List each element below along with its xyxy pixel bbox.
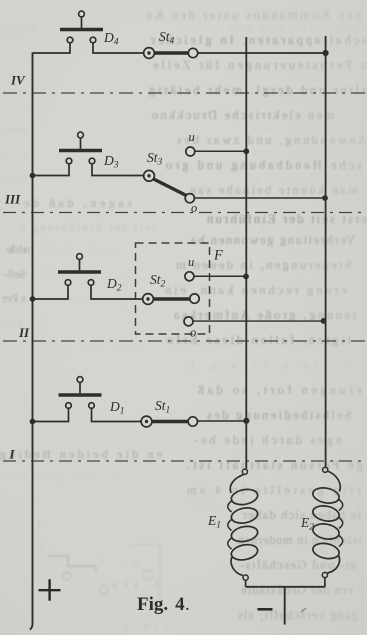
svg-text:u: u bbox=[188, 255, 194, 269]
junction on left bus at row 3 bbox=[30, 173, 36, 179]
wire: u contact of St2 to middle bus bbox=[194, 275, 247, 277]
level line IV bbox=[3, 92, 366, 94]
junction on right bus row 4 bbox=[323, 50, 329, 56]
push-button D3 bbox=[59, 132, 102, 164]
contact u of St2 bbox=[185, 272, 194, 281]
contact o of St3 bbox=[185, 194, 194, 203]
svg-text:Fig.4.: Fig.4. bbox=[137, 594, 189, 615]
dashed box F around St2 bbox=[136, 243, 210, 334]
wire: D4 right contact to St4 pivot bbox=[93, 43, 144, 53]
junction on middle bus row 3 bbox=[243, 148, 249, 154]
switch contact St2 (mid position) bbox=[143, 294, 200, 305]
wire: o contact of St2 to right bus bbox=[193, 320, 326, 322]
wire: u contact of St3 to middle bus bbox=[195, 150, 247, 152]
wire: D3 left contact to left bus bbox=[33, 164, 70, 176]
level line I bbox=[3, 460, 366, 462]
junction on left bus at row 2 bbox=[30, 296, 36, 302]
coil E2 bbox=[312, 467, 343, 577]
wire: o contact of St3 to right bus bbox=[194, 197, 326, 199]
negative terminal symbol bbox=[258, 608, 273, 611]
svg-text:Sell-: Sell- bbox=[4, 267, 26, 281]
wire: left supply bus (+) bbox=[30, 53, 33, 630]
wire: middle bus to coil E1 bbox=[245, 37, 247, 469]
svg-text:m: m bbox=[22, 369, 30, 380]
wire: D3 right contact to St3 pivot bbox=[92, 164, 144, 176]
svg-text:IV: IV bbox=[10, 73, 26, 88]
svg-text:erheit: erheit bbox=[0, 124, 28, 136]
wire: D1 left contact to left bus bbox=[33, 408, 69, 421]
switch contact St3 (thrown to contact o) bbox=[144, 170, 187, 195]
svg-text:den ele: den ele bbox=[0, 175, 30, 186]
contact u of St3 bbox=[186, 147, 195, 156]
svg-text:s Per: s Per bbox=[2, 291, 26, 305]
junction on left bus at row 1 bbox=[30, 419, 36, 425]
level line III bbox=[3, 212, 366, 214]
junction on middle bus row 2 bbox=[243, 274, 249, 280]
svg-text:weiter: weiter bbox=[0, 150, 30, 161]
level line II bbox=[3, 340, 366, 342]
wire: D1 right contact to St1 pivot bbox=[92, 408, 142, 421]
push-button D4 bbox=[60, 11, 103, 43]
wire: St1 contact to middle bus bbox=[197, 420, 246, 422]
wire: St4 contact to right bus bbox=[197, 52, 325, 54]
svg-text:o: o bbox=[190, 326, 196, 340]
svg-text:es-: es- bbox=[0, 394, 28, 405]
svg-text:I: I bbox=[9, 447, 16, 462]
wire: bottom joining bar bbox=[246, 586, 325, 588]
junction on middle bus row 1 bbox=[243, 418, 249, 424]
push-button D1 bbox=[59, 377, 102, 409]
svg-text:o: o bbox=[191, 201, 197, 215]
junction on right bus row 3 bbox=[322, 195, 328, 201]
wire: D4 left contact to left bus bbox=[33, 43, 71, 53]
wire: D2 right contact to St2 pivot bbox=[91, 285, 143, 299]
contact o of St2 bbox=[184, 317, 193, 326]
switch contact St4 (closed) bbox=[144, 48, 198, 59]
svg-text:nd die: nd die bbox=[6, 242, 30, 256]
push-button D2 bbox=[58, 254, 101, 286]
positive terminal symbol bbox=[39, 579, 61, 600]
wire: D2 left contact to left bus bbox=[33, 285, 69, 299]
wire: E2 bottom lead bbox=[324, 578, 326, 587]
svg-text:diese hei: diese hei bbox=[40, 344, 140, 355]
stray mark near minus bbox=[301, 608, 306, 612]
svg-text:II: II bbox=[18, 325, 30, 340]
svg-text:u: u bbox=[189, 130, 195, 144]
svg-text:III: III bbox=[4, 192, 21, 207]
coil E1 bbox=[228, 469, 259, 580]
svg-text:brache: brache bbox=[0, 50, 30, 61]
wire: E1 bottom lead bbox=[245, 580, 247, 587]
svg-text:in den: in den bbox=[0, 100, 30, 111]
svg-text:F: F bbox=[213, 248, 223, 264]
wire: negative terminal drop bbox=[284, 587, 286, 625]
svg-text:ur die gesselte: ur die gesselte bbox=[0, 471, 120, 482]
wire: right bus to coil E2 bbox=[325, 36, 327, 467]
switch contact St1 (closed) bbox=[141, 416, 197, 427]
junction on right bus row 2 bbox=[321, 318, 327, 324]
